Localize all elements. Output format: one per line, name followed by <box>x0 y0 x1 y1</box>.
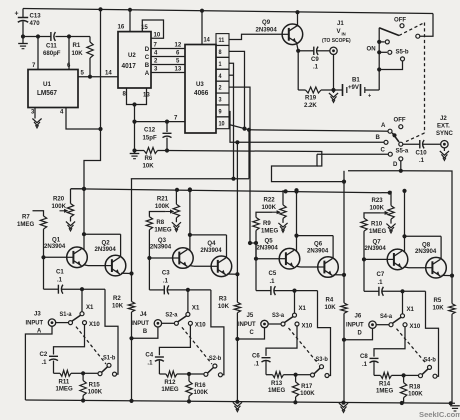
svg-text:12: 12 <box>175 41 182 48</box>
svg-text:INPUT: INPUT <box>238 321 256 328</box>
svg-text:2N3904: 2N3904 <box>95 246 117 253</box>
svg-text:C6: C6 <box>252 352 260 359</box>
watermark <box>419 410 460 419</box>
wire +9V top rail <box>23 9 433 14</box>
svg-text:100K: 100K <box>155 203 170 210</box>
wire U2 C out pin4 to U3 pin6 <box>145 49 185 61</box>
resistor R17 100K <box>292 375 315 403</box>
svg-text:5: 5 <box>81 69 85 76</box>
wire Vcc drop <box>84 9 101 188</box>
svg-text:S4-b: S4-b <box>424 357 437 363</box>
svg-text:S3-b: S3-b <box>316 357 329 363</box>
svg-text:R22: R22 <box>264 196 276 203</box>
wire U3 pin2 to channel3 base <box>229 87 258 259</box>
svg-text:U2: U2 <box>128 52 136 59</box>
svg-text:INPUT: INPUT <box>346 321 364 328</box>
wire U2 A out pin3 to U3 pin13 <box>145 65 185 77</box>
transistor Q1 2N3904 <box>44 236 87 268</box>
svg-text:OFF: OFF <box>394 16 406 23</box>
svg-text:C9: C9 <box>311 56 319 63</box>
resistor R2 10K <box>112 274 135 402</box>
label X10 <box>410 323 421 330</box>
svg-text:S4-a: S4-a <box>380 314 393 320</box>
resistor R23 trimmer <box>370 191 395 219</box>
svg-text:R19: R19 <box>305 94 317 101</box>
wire U1 pin4 to Vcc <box>60 108 101 130</box>
svg-text:A: A <box>145 70 150 77</box>
svg-text:LM567: LM567 <box>37 90 57 97</box>
svg-text:4017: 4017 <box>122 63 137 70</box>
wire down to R6 node <box>132 122 136 153</box>
wire U1 pin3 ground lead <box>31 108 35 119</box>
switch S5-b contacts <box>367 34 420 69</box>
wire collector tie <box>82 187 121 257</box>
capacitor C3 <box>149 258 211 294</box>
svg-text:100K: 100K <box>408 390 423 397</box>
capacitor C7 <box>364 259 426 295</box>
ground <box>130 151 140 159</box>
wire S5 mechanical link <box>399 23 425 142</box>
svg-text:X10: X10 <box>89 321 100 328</box>
wire emitter output <box>442 274 455 278</box>
node C11/pin6 junction <box>67 34 71 69</box>
svg-text:+9V: +9V <box>348 84 360 91</box>
wire J5 sleeve ground <box>235 328 264 341</box>
svg-text:.1: .1 <box>147 359 153 366</box>
svg-text:S5-b: S5-b <box>396 48 409 55</box>
transistor Q4 2N3904 <box>200 240 231 277</box>
svg-text:V: V <box>337 28 342 35</box>
resistor R14 1MEG <box>374 372 406 394</box>
capacitor C2 divider <box>40 325 85 374</box>
svg-text:C13: C13 <box>30 12 42 19</box>
wire U1 pin5 to U2 pin14 <box>78 69 118 79</box>
wire channel1 output drop <box>131 179 133 274</box>
svg-text:R20: R20 <box>53 195 65 202</box>
resistor R3 10K <box>218 274 241 402</box>
ground <box>339 403 348 412</box>
resistor R22 trimmer <box>262 190 287 218</box>
svg-text:S2-b: S2-b <box>209 356 222 362</box>
label X1 <box>407 306 415 313</box>
svg-text:R9: R9 <box>263 220 271 227</box>
svg-text:2: 2 <box>219 86 222 92</box>
svg-text:3: 3 <box>31 108 35 115</box>
svg-text:EXT.: EXT. <box>437 122 450 129</box>
svg-text:11: 11 <box>219 38 226 44</box>
wire bus C <box>317 153 390 155</box>
wire emitter to base <box>84 264 106 267</box>
wire C11 node to R1 top <box>69 36 90 38</box>
wire bus D <box>348 159 403 173</box>
svg-text:C11: C11 <box>46 42 57 49</box>
svg-text:S1-b: S1-b <box>103 355 116 361</box>
svg-text:1MEG: 1MEG <box>268 387 285 394</box>
resistor R11 1MEG <box>54 370 86 392</box>
capacitor C10 <box>403 140 441 164</box>
node base junction <box>254 257 279 261</box>
wire Q9 emitter to R19 <box>297 51 299 90</box>
svg-text:INPUT: INPUT <box>131 320 149 327</box>
svg-text:SeekIC.com: SeekIC.com <box>419 410 460 419</box>
svg-text:X1: X1 <box>299 305 307 312</box>
svg-text:9: 9 <box>219 109 222 115</box>
ground <box>278 218 287 232</box>
svg-text:S1-a: S1-a <box>60 312 73 318</box>
svg-text:8: 8 <box>219 50 223 56</box>
wire emitter to base <box>189 265 211 268</box>
svg-text:S5-a: S5-a <box>396 147 409 154</box>
wire C node to S-b <box>105 289 118 374</box>
wire bus C staircase <box>272 154 347 184</box>
wire bus A <box>229 125 390 132</box>
wire C node to S-b <box>318 291 331 376</box>
svg-text:C: C <box>250 329 255 336</box>
wire S-b link <box>289 328 319 364</box>
svg-text:.1: .1 <box>254 360 260 367</box>
svg-text:S3-a: S3-a <box>272 313 285 319</box>
switch S4-a <box>376 314 407 327</box>
wire collector tie <box>402 189 441 259</box>
jack J2 ext sync <box>436 115 453 148</box>
switch S3-b <box>296 357 329 378</box>
transistor Q9 2N3904 <box>256 19 303 45</box>
svg-text:7: 7 <box>174 114 178 121</box>
svg-text:10K: 10K <box>325 304 337 311</box>
wire bus A drop to channel1 <box>248 130 250 179</box>
svg-text:C1: C1 <box>56 268 64 275</box>
wire collector tie <box>188 187 227 257</box>
svg-text:U3: U3 <box>196 81 204 88</box>
svg-text:5: 5 <box>176 57 180 64</box>
svg-text:S2-a: S2-a <box>165 312 178 318</box>
svg-text:2N3904: 2N3904 <box>256 26 278 33</box>
label X1 <box>86 304 94 311</box>
svg-text:2N3904: 2N3904 <box>150 243 172 250</box>
svg-text:3: 3 <box>219 97 222 103</box>
wire S-b link <box>397 329 427 364</box>
wire X1 to C node <box>294 291 296 314</box>
svg-text:C3: C3 <box>162 269 170 276</box>
transistor Q6 2N3904 <box>307 240 338 277</box>
svg-text:B: B <box>145 62 150 69</box>
svg-text:100K: 100K <box>262 204 277 211</box>
svg-text:D: D <box>145 46 150 53</box>
svg-text:2N3904: 2N3904 <box>415 248 437 255</box>
ground <box>329 90 338 102</box>
IC U2 4017 <box>118 32 151 88</box>
wire channel3 output drop <box>343 171 345 275</box>
svg-text:10: 10 <box>154 31 161 38</box>
svg-text:C10: C10 <box>416 149 428 156</box>
node R6/C12 junction <box>165 148 169 152</box>
jack J4 input <box>131 311 161 335</box>
resistor R7 1MEG <box>17 211 47 257</box>
switch S5-a OFF contact <box>394 116 406 128</box>
svg-text:R4: R4 <box>326 296 334 303</box>
svg-text:10K: 10K <box>218 303 230 310</box>
capacitor C11 <box>38 32 69 57</box>
svg-text:6: 6 <box>67 62 71 69</box>
ground <box>386 219 395 233</box>
switch S4-b <box>404 357 437 378</box>
svg-text:100K: 100K <box>88 388 103 395</box>
svg-text:.1: .1 <box>362 361 368 368</box>
svg-text:C7: C7 <box>377 271 385 278</box>
svg-text:D: D <box>358 329 363 336</box>
svg-text:SYNC: SYNC <box>436 130 453 137</box>
wire bus B <box>230 111 386 144</box>
svg-text:.1: .1 <box>419 157 425 164</box>
ground <box>233 402 242 411</box>
svg-text:(TO SCOPE): (TO SCOPE) <box>322 38 351 44</box>
resistor R4 10K <box>325 275 348 403</box>
switch S1-b <box>83 355 116 376</box>
jack J5 input <box>238 312 268 336</box>
switch S5-a pole <box>392 133 409 155</box>
svg-text:7: 7 <box>154 41 158 48</box>
wire Q9 base to U3 pin11 <box>229 34 282 39</box>
resistor R10 1MEG <box>361 213 386 260</box>
node C13/C11 junction <box>21 34 40 38</box>
switch S5-b blade <box>379 28 399 36</box>
svg-text:470: 470 <box>30 20 41 27</box>
svg-text:1MEG: 1MEG <box>369 228 386 235</box>
svg-text:10: 10 <box>219 121 225 127</box>
wire X1 to C node <box>402 291 404 314</box>
svg-text:13: 13 <box>143 91 150 98</box>
svg-text:X10: X10 <box>302 322 313 329</box>
transistor Q3 2N3904 <box>150 237 193 269</box>
svg-text:C8: C8 <box>360 353 368 360</box>
wire Q9 emitter node <box>296 43 300 53</box>
node U2 bottom junction <box>132 102 136 123</box>
capacitor C4 divider <box>145 325 190 374</box>
svg-text:15: 15 <box>141 24 148 31</box>
svg-text:4: 4 <box>60 108 64 115</box>
ground <box>172 218 181 232</box>
svg-text:ON: ON <box>367 45 377 52</box>
transistor Q2 2N3904 <box>95 239 126 276</box>
wire emitter to base <box>296 265 318 268</box>
switch S2-b <box>189 356 222 377</box>
resistor R20 trimmer <box>52 189 85 217</box>
wire emitter output <box>227 272 240 276</box>
wiper arrow R20 <box>60 209 69 213</box>
svg-text:14: 14 <box>204 37 211 43</box>
svg-text:1MEG: 1MEG <box>261 227 278 234</box>
svg-text:C: C <box>381 146 386 153</box>
svg-text:16: 16 <box>118 23 125 30</box>
node base junction <box>362 257 387 261</box>
capacitor C5 <box>256 259 318 295</box>
jack J1 to scope <box>322 20 351 55</box>
svg-text:J6: J6 <box>355 312 362 319</box>
battery B1 +9V <box>334 76 380 99</box>
switch S5-a contact B <box>376 134 389 145</box>
svg-text:14: 14 <box>105 69 112 76</box>
svg-text:6: 6 <box>176 49 180 56</box>
wiper arrow R22 <box>272 210 281 214</box>
svg-text:J1: J1 <box>337 20 344 27</box>
svg-text:+: + <box>368 93 372 99</box>
svg-text:100K: 100K <box>370 204 385 211</box>
ground <box>18 37 28 49</box>
svg-text:INPUT: INPUT <box>26 319 44 326</box>
resistor R12 1MEG <box>159 371 191 393</box>
svg-text:IN: IN <box>342 31 346 36</box>
svg-text:2N3904: 2N3904 <box>365 245 387 252</box>
wire C node to S-b <box>211 290 224 375</box>
wire U3 pin7 line <box>135 114 186 121</box>
svg-text:X10: X10 <box>410 323 421 330</box>
svg-text:.1: .1 <box>163 277 169 284</box>
resistor R19 <box>298 87 333 109</box>
svg-text:4066: 4066 <box>194 90 209 97</box>
resistor R16 100K <box>186 374 209 402</box>
svg-text:J2: J2 <box>440 115 447 122</box>
svg-text:.1: .1 <box>378 279 384 286</box>
resistor R21 trimmer <box>155 190 180 218</box>
svg-text:R1: R1 <box>73 42 81 49</box>
switch S5-b pole line <box>377 28 381 90</box>
resistor R18 100K <box>400 375 423 403</box>
resistor R9 1MEG <box>253 212 278 259</box>
svg-text:B: B <box>376 134 381 141</box>
svg-text:.1: .1 <box>270 278 276 285</box>
transistor Q8 2N3904 <box>415 241 446 278</box>
wire J4 sleeve ground <box>129 327 158 340</box>
wire S-b link <box>182 327 212 364</box>
resistor R5 10K <box>433 276 456 404</box>
svg-text:10K: 10K <box>112 302 124 309</box>
svg-text:1MEG: 1MEG <box>17 221 34 228</box>
wire U3 pin8 stub <box>229 51 247 130</box>
svg-text:B: B <box>143 328 148 335</box>
svg-text:J4: J4 <box>140 311 147 318</box>
capacitor C6 divider <box>252 326 297 375</box>
svg-text:C: C <box>145 54 150 61</box>
wire emitter output <box>121 271 134 275</box>
wire U3 pin14 to rail <box>200 9 211 45</box>
label X10 <box>89 321 100 328</box>
capacitor C9 <box>298 47 330 71</box>
node base junction <box>147 256 172 260</box>
svg-text:.1: .1 <box>313 63 319 70</box>
wire emitter output <box>334 273 347 277</box>
svg-text:R3: R3 <box>219 295 227 302</box>
resistor R13 1MEG <box>266 372 298 394</box>
wire J1 down <box>331 55 335 93</box>
svg-text:2: 2 <box>154 57 158 64</box>
wire emitter to base <box>404 266 426 269</box>
svg-text:3: 3 <box>154 65 158 72</box>
svg-text:4: 4 <box>154 49 158 56</box>
svg-text:2.2K: 2.2K <box>304 102 317 109</box>
wire U3 pin4 stub <box>229 74 234 76</box>
wire U2 pin15-pin10 loop <box>141 20 164 39</box>
wire U2 D out pin7 to U3 pin12 <box>145 41 185 53</box>
wire X1 to C node <box>81 289 83 312</box>
ground <box>66 217 75 231</box>
switch S3-a <box>268 313 299 326</box>
wire J3 sleeve ground <box>25 326 52 400</box>
wire R6 node to staircase <box>167 151 322 167</box>
switch S1-a <box>56 312 87 325</box>
wiper arrow R21 <box>165 209 174 213</box>
svg-text:R7: R7 <box>22 213 30 220</box>
svg-text:10K: 10K <box>433 304 445 311</box>
label X1 <box>299 305 307 312</box>
svg-text:C12: C12 <box>144 126 156 133</box>
svg-text:1: 1 <box>219 62 223 68</box>
wire X1 to C node <box>187 290 189 313</box>
svg-text:7: 7 <box>32 62 36 69</box>
svg-text:X1: X1 <box>407 306 415 313</box>
node top rail right corner <box>418 14 433 37</box>
svg-text:U1: U1 <box>43 81 51 88</box>
label X1 <box>192 304 200 311</box>
capacitor C13 <box>15 8 42 36</box>
node Vcc rail tap <box>98 7 102 11</box>
wire U2 pin8 pin13 loop <box>123 88 151 105</box>
svg-text:10K: 10K <box>143 162 155 169</box>
svg-text:X10: X10 <box>195 321 206 328</box>
svg-text:J5: J5 <box>247 312 254 319</box>
svg-text:R8: R8 <box>156 219 164 226</box>
svg-text:B1: B1 <box>352 76 360 83</box>
svg-text:1MEG: 1MEG <box>376 387 393 394</box>
svg-text:X1: X1 <box>86 304 94 311</box>
svg-text:Q9: Q9 <box>262 19 271 26</box>
svg-text:X1: X1 <box>192 304 200 311</box>
svg-text:2N3904: 2N3904 <box>257 244 279 251</box>
IC U3 4066 <box>185 45 216 134</box>
svg-text:1MEG: 1MEG <box>154 226 171 233</box>
svg-text:4: 4 <box>219 74 223 80</box>
svg-text:R21: R21 <box>157 195 169 202</box>
svg-text:+: + <box>15 8 19 17</box>
svg-text:13: 13 <box>175 65 182 72</box>
op-amp U1 LM567 <box>28 70 78 108</box>
switch S5-a contact C <box>381 146 393 156</box>
svg-text:2N3904: 2N3904 <box>44 243 66 250</box>
svg-text:J3: J3 <box>34 310 41 317</box>
label X10 <box>195 321 206 328</box>
wire U3 pin1 to channel1 line <box>229 63 236 180</box>
node pin4/Vcc junction <box>98 127 102 131</box>
capacitor C12 <box>143 120 172 151</box>
switch S5-a contact D <box>393 157 403 168</box>
ground <box>440 148 449 160</box>
IC U3 right pin stubs <box>216 34 229 129</box>
svg-text:15pF: 15pF <box>143 134 157 141</box>
wire collector tie <box>294 188 333 258</box>
capacitor C1 <box>44 257 106 293</box>
wire U2 B out pin2 to U3 pin5 <box>145 57 185 69</box>
svg-text:.1: .1 <box>42 359 48 366</box>
svg-text:.1: .1 <box>57 276 63 283</box>
svg-text:C5: C5 <box>269 270 277 277</box>
wire channel1 output line <box>131 178 249 180</box>
svg-text:OFF: OFF <box>394 116 406 123</box>
svg-text:A: A <box>381 122 386 129</box>
svg-text:R10: R10 <box>371 220 383 227</box>
wire J6 sleeve ground <box>342 329 373 342</box>
wire U2 pin16 to rail <box>118 8 133 32</box>
svg-text:2N3904: 2N3904 <box>200 247 222 254</box>
svg-text:R6: R6 <box>145 155 153 162</box>
